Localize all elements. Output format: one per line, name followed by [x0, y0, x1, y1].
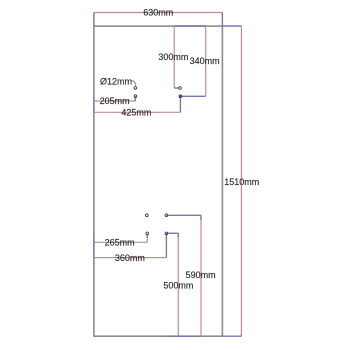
svg-text:425mm: 425mm	[121, 108, 151, 118]
svg-text:340mm: 340mm	[190, 56, 220, 66]
svg-text:1510mm: 1510mm	[224, 177, 259, 187]
svg-text:Ø12mm: Ø12mm	[100, 77, 132, 87]
svg-text:300mm: 300mm	[158, 52, 188, 62]
svg-text:360mm: 360mm	[115, 253, 145, 263]
svg-text:590mm: 590mm	[186, 270, 216, 280]
svg-text:500mm: 500mm	[163, 280, 193, 290]
svg-text:265mm: 265mm	[105, 238, 135, 248]
svg-text:205mm: 205mm	[100, 96, 130, 106]
svg-text:630mm: 630mm	[143, 8, 173, 18]
